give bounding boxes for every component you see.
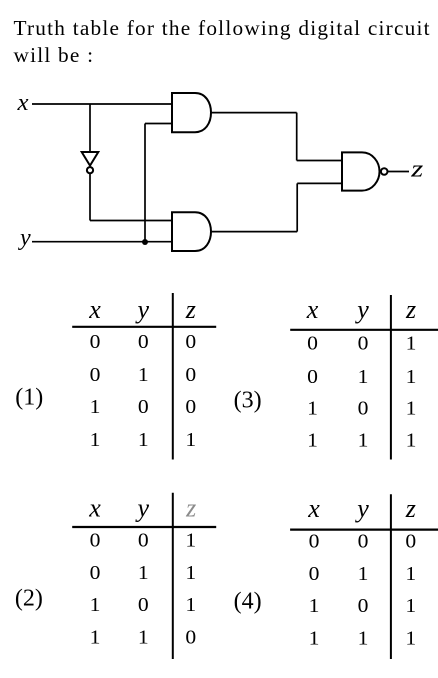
svg-text:1: 1 — [309, 596, 320, 617]
svg-text:1: 1 — [406, 334, 417, 355]
svg-text:x: x — [306, 295, 319, 324]
wire to NAND U4 bottom input — [297, 182, 342, 184]
svg-text:0: 0 — [185, 365, 196, 386]
svg-text:1: 1 — [307, 431, 318, 452]
svg-text:(3): (3) — [234, 388, 262, 414]
svg-text:y: y — [354, 494, 369, 523]
svg-text:1: 1 — [406, 399, 417, 420]
svg-text:x: x — [307, 494, 320, 523]
title text — [14, 15, 438, 69]
table (2) header rule — [72, 526, 216, 528]
wire up to NAND bottom input level — [296, 183, 298, 231]
svg-text:1: 1 — [309, 629, 320, 650]
svg-text:0: 0 — [90, 332, 101, 353]
svg-text:z: z — [185, 295, 196, 324]
table (4) rows — [309, 532, 417, 650]
table (4) vertical divider — [390, 494, 392, 659]
svg-text:1: 1 — [406, 367, 417, 388]
wire NAND output — [388, 171, 409, 173]
table (1) header x y z — [88, 295, 196, 324]
svg-text:1: 1 — [138, 628, 149, 649]
table (1) rows — [90, 332, 197, 451]
svg-text:1: 1 — [358, 367, 369, 388]
table (1) header rule — [72, 326, 216, 328]
wire to NAND U4 top input — [297, 160, 342, 162]
AND gate U3 (bottom) — [172, 212, 211, 251]
svg-text:y: y — [135, 295, 150, 324]
svg-text:1: 1 — [138, 430, 149, 451]
table (3) vertical divider — [390, 295, 392, 460]
NAND gate U4 — [342, 152, 388, 190]
svg-text:0: 0 — [138, 530, 149, 551]
inverter U1 (NOT gate) — [82, 152, 99, 173]
table (3) header x y z — [306, 295, 416, 324]
label (3) — [234, 388, 262, 414]
svg-text:x: x — [88, 494, 101, 523]
wire junction up — [144, 124, 146, 242]
svg-text:1: 1 — [405, 596, 416, 617]
svg-text:1: 1 — [90, 628, 101, 649]
svg-text:0: 0 — [358, 596, 369, 617]
wire U3 output right — [211, 231, 297, 233]
wire branch from x down to inverter — [89, 104, 91, 152]
wire down to NAND top input level — [296, 113, 298, 161]
label (2) — [15, 585, 43, 611]
svg-text:0: 0 — [358, 334, 369, 355]
table (3) rows — [307, 334, 416, 452]
svg-text:y: y — [354, 295, 369, 324]
svg-text:1: 1 — [405, 564, 416, 585]
svg-text:(1): (1) — [15, 384, 43, 410]
wire inverter output right to AND gate U3 top input — [90, 220, 172, 222]
svg-text:0: 0 — [185, 628, 196, 649]
table (2) vertical divider — [172, 493, 174, 659]
table (3) header rule — [290, 329, 438, 331]
svg-text:z: z — [185, 494, 196, 523]
table (2) rows — [90, 530, 197, 648]
svg-text:0: 0 — [185, 332, 196, 353]
svg-text:0: 0 — [138, 595, 149, 616]
svg-text:1: 1 — [358, 564, 369, 585]
svg-text:0: 0 — [90, 365, 101, 386]
svg-text:1: 1 — [405, 629, 416, 650]
wire inverter output down — [89, 174, 91, 221]
wire y input — [32, 241, 172, 243]
svg-text:0: 0 — [185, 397, 196, 418]
svg-text:1: 1 — [90, 430, 101, 451]
svg-text:(2): (2) — [15, 585, 43, 611]
svg-text:0: 0 — [405, 532, 416, 553]
svg-text:1: 1 — [185, 563, 196, 584]
table (2) header x y z (z printed gray) — [88, 494, 196, 523]
svg-text:0: 0 — [358, 532, 369, 553]
svg-text:1: 1 — [138, 563, 149, 584]
AND gate U2 (top) — [172, 93, 211, 132]
svg-text:1: 1 — [90, 397, 101, 418]
svg-text:z: z — [410, 157, 424, 183]
svg-text:y: y — [18, 225, 31, 251]
svg-text:0: 0 — [309, 532, 320, 553]
table (4) header rule — [290, 528, 438, 530]
wire U2 output right — [211, 112, 297, 114]
svg-text:0: 0 — [307, 334, 318, 355]
svg-text:(4): (4) — [234, 588, 262, 614]
label (1) — [15, 384, 43, 410]
svg-text:1: 1 — [90, 595, 101, 616]
svg-text:0: 0 — [90, 563, 101, 584]
svg-text:1: 1 — [358, 629, 369, 650]
svg-text:0: 0 — [138, 332, 149, 353]
wire x input — [32, 103, 172, 105]
svg-text:0: 0 — [138, 397, 149, 418]
svg-text:1: 1 — [406, 431, 417, 452]
svg-text:0: 0 — [90, 530, 101, 551]
svg-text:0: 0 — [307, 367, 318, 388]
svg-text:1: 1 — [185, 430, 196, 451]
svg-text:z: z — [405, 295, 416, 324]
svg-text:0: 0 — [309, 564, 320, 585]
svg-text:y: y — [135, 494, 150, 523]
wire to AND gate U2 bottom input — [145, 123, 172, 125]
table (1) vertical divider — [172, 293, 174, 460]
node y — [18, 225, 31, 251]
svg-text:1: 1 — [307, 399, 318, 420]
svg-text:x: x — [16, 90, 28, 116]
table (4) header x y z — [307, 494, 416, 523]
node z — [410, 157, 424, 183]
svg-text:z: z — [405, 494, 416, 523]
svg-text:1: 1 — [185, 595, 196, 616]
svg-text:1: 1 — [358, 431, 369, 452]
node x — [16, 90, 28, 116]
svg-text:1: 1 — [138, 365, 149, 386]
label (4) — [234, 588, 262, 614]
svg-text:x: x — [88, 295, 101, 324]
svg-text:1: 1 — [185, 530, 196, 551]
svg-text:0: 0 — [358, 399, 369, 420]
junction on y wire — [142, 239, 148, 245]
